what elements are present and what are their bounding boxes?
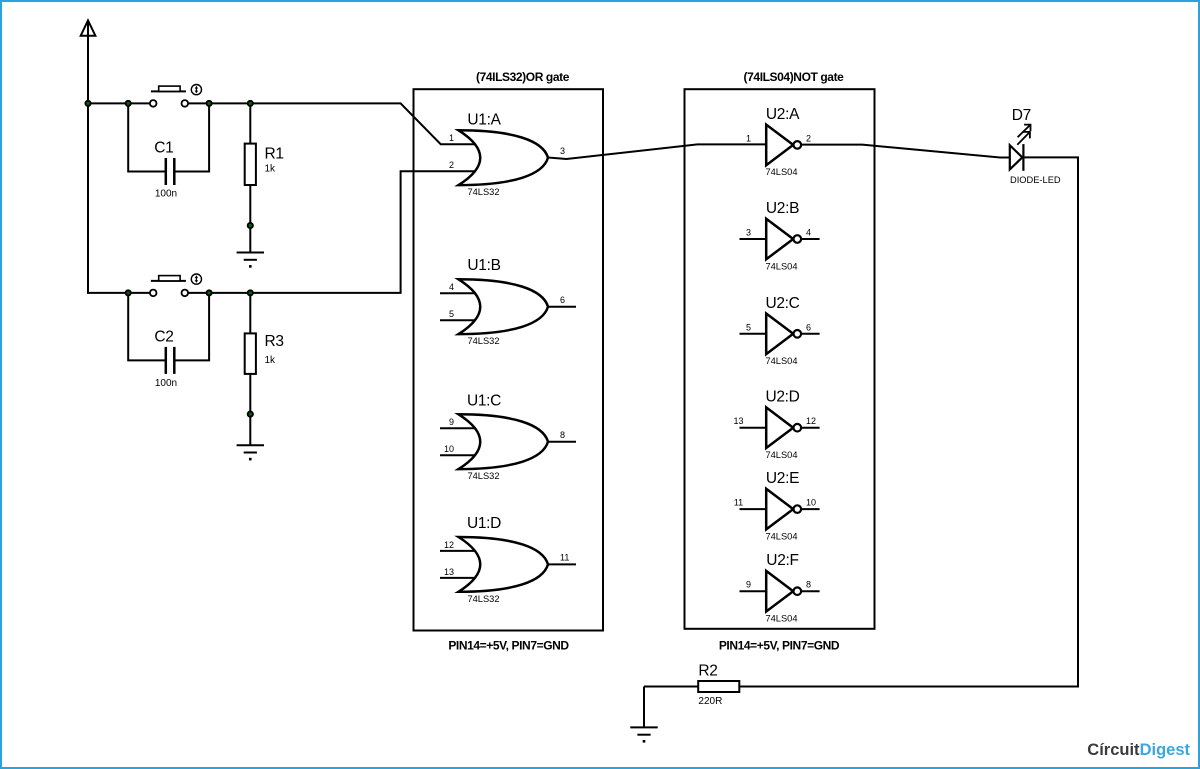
svg-text:11: 11 <box>734 498 743 508</box>
or-gate U1:D <box>440 515 576 604</box>
svg-text:2: 2 <box>449 160 454 170</box>
inverter U2:A <box>746 106 811 177</box>
svg-text:8: 8 <box>806 580 811 590</box>
svg-text:R3: R3 <box>265 333 284 350</box>
svg-text:74LS04: 74LS04 <box>765 531 797 541</box>
svg-text:U2:C: U2:C <box>765 295 799 312</box>
svg-text:U2:F: U2:F <box>766 552 798 569</box>
wire: LED cathode down to R2 <box>740 157 1079 686</box>
node junction J8 <box>248 223 253 228</box>
svg-text:100n: 100n <box>155 378 177 389</box>
svg-text:D7: D7 <box>1012 107 1031 124</box>
svg-text:10: 10 <box>806 498 816 508</box>
svg-text:74LS04: 74LS04 <box>765 261 797 271</box>
svg-text:74LS32: 74LS32 <box>467 594 499 604</box>
inverter U2:E <box>734 470 820 541</box>
svg-text:1: 1 <box>449 133 454 143</box>
inverter U2:C <box>740 295 820 366</box>
svg-text:4: 4 <box>449 282 454 292</box>
resistor R2 <box>644 663 739 728</box>
svg-text:C1: C1 <box>154 140 173 157</box>
svg-text:PIN14=+5V, PIN7=GND: PIN14=+5V, PIN7=GND <box>719 639 840 653</box>
wire: upper rail (left of switch) <box>88 102 150 104</box>
node junction J9 <box>248 412 253 417</box>
svg-text:U1:A: U1:A <box>467 112 501 129</box>
svg-text:U1:C: U1:C <box>467 393 501 410</box>
svg-text:11: 11 <box>560 553 569 563</box>
inverter U2:F <box>740 552 820 623</box>
svg-text:6: 6 <box>560 295 565 305</box>
svg-text:13: 13 <box>444 567 454 577</box>
resistor R1 <box>245 103 284 252</box>
power symbol (+V arrow) <box>81 20 96 103</box>
svg-text:3: 3 <box>560 146 565 156</box>
or-gate U1:C <box>440 393 576 482</box>
svg-text:12: 12 <box>806 416 816 426</box>
svg-text:9: 9 <box>449 417 454 427</box>
svg-text:U2:E: U2:E <box>766 470 799 487</box>
push button SW2 <box>150 274 202 296</box>
wire: U2:A pin2 to LED D7 anode <box>801 145 1010 158</box>
node junction J6 <box>207 290 212 295</box>
svg-text:8: 8 <box>560 430 565 440</box>
LED D7 <box>1010 107 1061 185</box>
ground (under R3) <box>237 445 264 460</box>
wire: power rail down to lower branch and lower rail left segment <box>88 103 150 293</box>
push button SW1 <box>150 85 202 107</box>
svg-text:(74ILS32)OR gate: (74ILS32)OR gate <box>476 70 570 84</box>
svg-text:100n: 100n <box>155 188 177 199</box>
node junction J4 <box>248 101 253 106</box>
svg-text:12: 12 <box>444 540 454 550</box>
svg-text:R1: R1 <box>265 146 284 163</box>
resistor R3 <box>245 293 284 445</box>
svg-text:74LS32: 74LS32 <box>467 471 499 481</box>
svg-text:74LS04: 74LS04 <box>765 614 797 624</box>
node junction J7 <box>248 290 253 295</box>
node junction J3 <box>207 101 212 106</box>
svg-text:U2:D: U2:D <box>765 389 799 406</box>
ground (under R2) <box>630 727 657 742</box>
capacitor C1 <box>128 103 209 199</box>
inverter U2:B <box>740 200 820 271</box>
svg-text:U2:B: U2:B <box>766 200 799 217</box>
capacitor C2 <box>128 293 209 389</box>
svg-text:R2: R2 <box>698 663 717 680</box>
svg-text:4: 4 <box>806 228 811 238</box>
node junction J2 <box>126 101 131 106</box>
node junction J5 <box>126 290 131 295</box>
wire: upper rail right of switch into OR gate pin 1 (diagonal) <box>188 103 479 144</box>
svg-text:74LS04: 74LS04 <box>765 167 797 177</box>
svg-text:1k: 1k <box>265 163 277 174</box>
svg-text:9: 9 <box>746 580 751 590</box>
svg-text:2: 2 <box>806 133 811 143</box>
or-gate U1:A <box>449 112 565 198</box>
svg-text:3: 3 <box>746 228 751 238</box>
IC box U1 (74LS32 OR gates) <box>414 89 604 630</box>
svg-text:U1:D: U1:D <box>467 515 501 532</box>
or-gate U1:B <box>440 257 576 346</box>
svg-text:1k: 1k <box>265 355 277 366</box>
IC box U2 (74LS04 NOT gates) <box>685 89 875 629</box>
wire: U1:A pin3 to U2:A pin1 <box>548 144 766 159</box>
svg-text:5: 5 <box>746 322 751 332</box>
svg-text:74LS04: 74LS04 <box>765 356 797 366</box>
wire: lower rail right of switch, up to OR gate pin 2 <box>188 171 479 293</box>
ground (under R1) <box>237 253 264 268</box>
svg-text:U1:B: U1:B <box>467 257 500 274</box>
svg-text:6: 6 <box>806 322 811 332</box>
svg-text:PIN14=+5V, PIN7=GND: PIN14=+5V, PIN7=GND <box>448 639 569 653</box>
node junction J1 <box>85 101 90 106</box>
svg-text:74LS32: 74LS32 <box>467 336 499 346</box>
svg-text:DIODE-LED: DIODE-LED <box>1010 175 1061 185</box>
svg-text:10: 10 <box>444 444 454 454</box>
svg-text:U2:A: U2:A <box>766 106 800 123</box>
svg-text:(74ILS04)NOT gate: (74ILS04)NOT gate <box>744 70 845 84</box>
svg-text:74LS32: 74LS32 <box>467 187 499 197</box>
svg-text:C2: C2 <box>154 329 173 346</box>
svg-text:220R: 220R <box>698 696 722 707</box>
svg-text:5: 5 <box>449 309 454 319</box>
svg-text:74LS04: 74LS04 <box>765 450 797 460</box>
svg-text:1: 1 <box>746 133 751 143</box>
svg-text:13: 13 <box>733 416 743 426</box>
inverter U2:D <box>733 389 819 460</box>
svg-text:CírcuitDigest: CírcuitDigest <box>1087 741 1190 759</box>
